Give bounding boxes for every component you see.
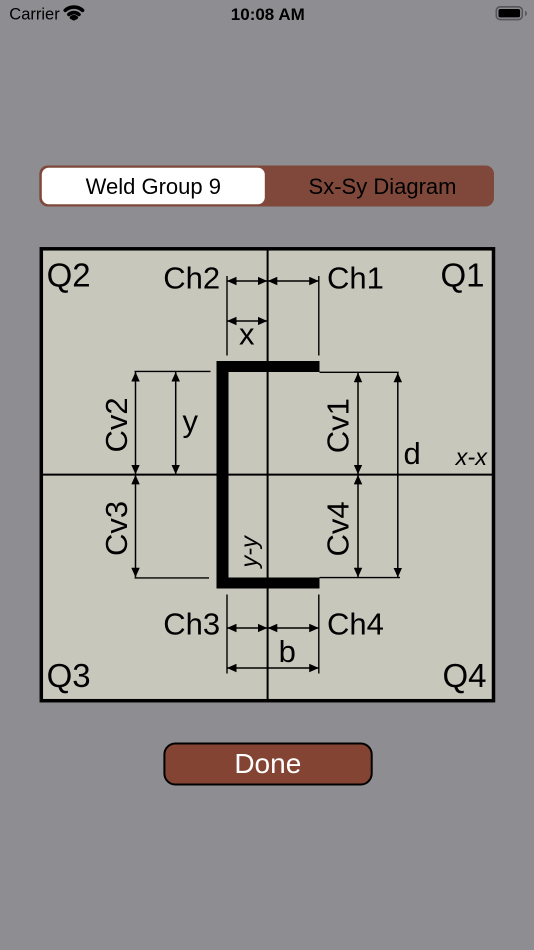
svg-text:b: b <box>279 634 296 669</box>
svg-text:Ch1: Ch1 <box>327 260 384 295</box>
svg-text:Ch3: Ch3 <box>163 607 220 642</box>
weld channel web <box>217 361 229 589</box>
svg-text:Ch2: Ch2 <box>163 260 220 295</box>
weld channel bottom flange <box>217 578 320 589</box>
svg-text:Cv4: Cv4 <box>321 501 356 556</box>
segmented control selected pill <box>42 168 265 205</box>
segmented control background <box>39 166 494 207</box>
svg-text:Q4: Q4 <box>442 657 486 694</box>
svg-text:Carrier: Carrier <box>9 6 60 24</box>
status bar wifi icon <box>65 7 82 17</box>
svg-text:Ch4: Ch4 <box>327 607 384 642</box>
horizontal center line (x axis) <box>41 474 494 476</box>
svg-text:Q2: Q2 <box>47 257 91 294</box>
svg-text:Done: Done <box>234 748 301 779</box>
svg-text:y: y <box>183 403 199 438</box>
vertical center line (y axis) <box>267 251 269 701</box>
dimension Cv2 arrow <box>135 372 137 474</box>
dimension Ch2 arrow <box>227 280 267 282</box>
extension line top right vertical <box>318 276 320 356</box>
dimension y arrow <box>175 372 177 474</box>
svg-text:y-y: y-y <box>236 535 262 570</box>
svg-text:Q3: Q3 <box>47 657 91 694</box>
svg-text:Sx-Sy Diagram: Sx-Sy Diagram <box>309 174 457 199</box>
done button <box>164 744 371 785</box>
battery nub <box>525 11 527 16</box>
extension line upper left horizontal <box>135 370 211 372</box>
dimension x arrow <box>227 320 267 322</box>
extension line top left vertical <box>226 276 228 356</box>
svg-text:x: x <box>239 317 255 352</box>
svg-text:x-x: x-x <box>455 444 489 470</box>
weld channel top flange <box>217 361 320 372</box>
battery fill <box>499 9 521 17</box>
svg-text:Cv1: Cv1 <box>321 398 356 453</box>
extension line lower right horizontal <box>320 577 401 579</box>
battery body <box>496 7 522 20</box>
dimension Ch1 arrow <box>268 280 319 282</box>
dimension d arrow <box>397 373 399 578</box>
svg-text:d: d <box>404 436 421 471</box>
dimension Cv4 arrow <box>357 475 359 577</box>
extension line bottom left vertical <box>226 595 228 674</box>
dimension Cv3 arrow <box>135 475 137 577</box>
svg-text:Cv2: Cv2 <box>99 397 134 452</box>
svg-text:10:08 AM: 10:08 AM <box>231 5 305 24</box>
svg-text:Weld Group 9: Weld Group 9 <box>86 174 221 199</box>
dimension Cv1 arrow <box>357 373 359 475</box>
svg-text:Q1: Q1 <box>440 257 484 294</box>
extension line upper right horizontal <box>320 371 399 373</box>
svg-text:Cv3: Cv3 <box>99 501 134 556</box>
quadrant plot box <box>41 249 493 701</box>
wifi dot <box>72 16 77 21</box>
dimension b arrow <box>227 667 319 669</box>
extension line bottom right vertical <box>318 595 320 674</box>
extension line lower left horizontal <box>135 577 210 579</box>
dimension Ch3 arrow <box>227 627 267 629</box>
dimension Ch4 arrow <box>268 627 319 629</box>
